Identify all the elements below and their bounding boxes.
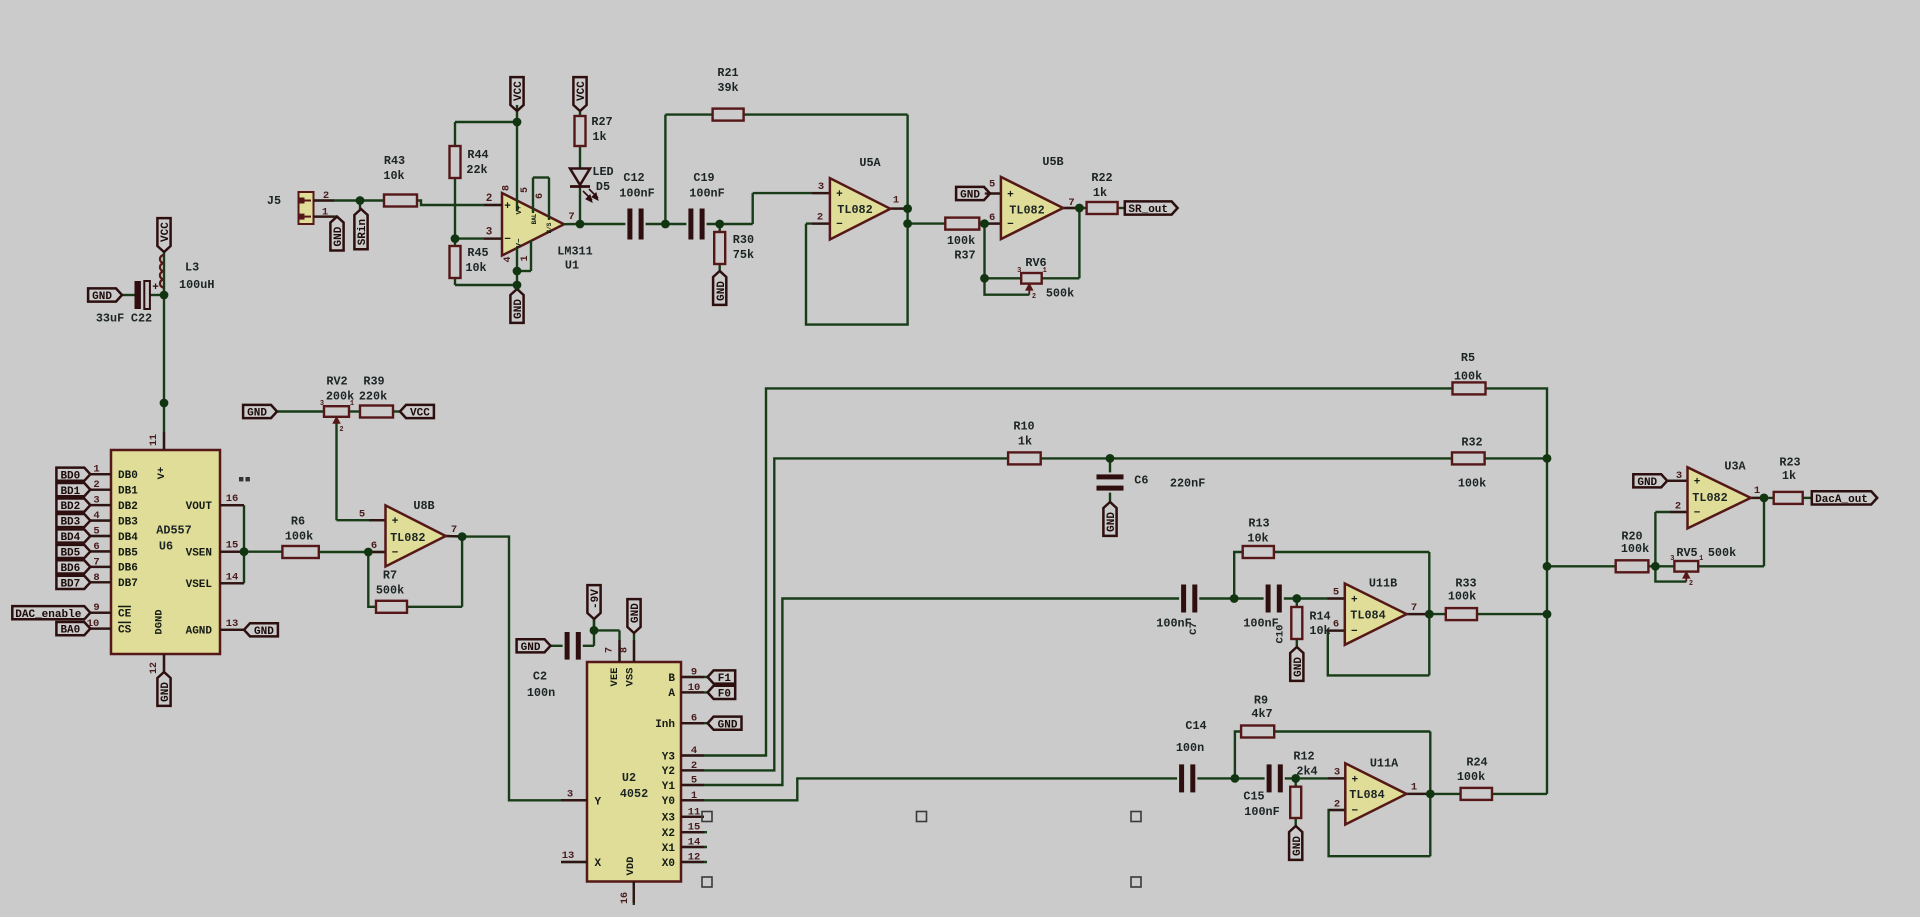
svg-text:R21: R21 [717,66,738,80]
svg-text:14: 14 [226,571,239,583]
svg-text:GND: GND [513,299,525,319]
svg-text:220k: 220k [359,390,387,404]
svg-text:9: 9 [691,667,697,679]
svg-text:7: 7 [451,524,457,536]
svg-text:GND: GND [630,603,642,623]
svg-text:R45: R45 [467,246,488,260]
svg-text:C14: C14 [1185,719,1206,733]
svg-text:BD2: BD2 [60,501,80,513]
svg-text:−: − [1351,806,1358,818]
svg-text:GND: GND [1292,836,1304,856]
svg-text:DB7: DB7 [118,578,138,590]
svg-text:10k: 10k [1247,532,1268,546]
svg-text:3: 3 [567,788,573,800]
svg-text:3: 3 [1670,555,1674,563]
svg-text:R27: R27 [591,115,612,129]
svg-text:100nF: 100nF [619,187,654,201]
svg-text:R43: R43 [384,154,405,168]
svg-text:−: − [1351,626,1358,638]
svg-text:−: − [836,219,843,231]
svg-text:Inh: Inh [655,719,675,731]
svg-text:7: 7 [605,647,616,653]
svg-text:8: 8 [93,572,99,584]
svg-text:+: + [1007,189,1014,201]
svg-text:U2: U2 [622,771,636,785]
svg-text:R33: R33 [1455,577,1476,591]
svg-text:2: 2 [1675,501,1681,513]
svg-text:F0: F0 [718,689,731,701]
svg-text:12: 12 [149,662,160,674]
svg-text:+: + [392,516,399,528]
svg-text:3: 3 [486,227,493,239]
svg-text:VOUT: VOUT [186,501,213,513]
svg-text:Y: Y [595,796,602,808]
svg-text:D5: D5 [596,180,610,194]
svg-text:R12: R12 [1293,750,1314,764]
svg-text:2: 2 [817,212,823,224]
svg-text:7: 7 [93,556,99,568]
svg-text:VSEN: VSEN [186,548,212,560]
svg-text:TL084: TL084 [1349,788,1384,802]
svg-text:4: 4 [503,256,514,262]
svg-text:Y1: Y1 [662,781,676,793]
svg-text:16: 16 [226,493,239,505]
svg-text:1: 1 [1411,782,1417,794]
svg-text:10k: 10k [465,261,486,275]
svg-text:500k: 500k [1046,287,1074,301]
svg-text:+: + [152,282,159,294]
svg-text:VCC: VCC [576,81,588,101]
svg-text:13: 13 [226,618,239,630]
svg-text:GND: GND [716,281,728,301]
svg-text:2k4: 2k4 [1296,765,1317,779]
svg-text:100k: 100k [1448,590,1476,604]
svg-text:TL082: TL082 [837,203,872,217]
svg-text:8: 8 [502,185,513,191]
svg-text:3: 3 [818,181,824,193]
svg-text:GND: GND [1637,477,1657,489]
svg-text:1: 1 [322,207,328,219]
svg-text:+: + [1351,594,1358,606]
svg-text:GND: GND [160,682,172,702]
svg-text:75k: 75k [733,248,754,262]
svg-text:U11A: U11A [1370,757,1399,771]
svg-text:6: 6 [535,193,546,199]
svg-text:U5A: U5A [859,156,881,170]
svg-text:5: 5 [691,775,697,787]
svg-text:100k: 100k [1454,370,1482,384]
svg-text:5: 5 [520,187,531,193]
svg-text:16: 16 [620,892,631,904]
svg-text:V−: V− [516,238,524,248]
svg-text:1k: 1k [592,130,606,144]
svg-text:DB4: DB4 [118,532,138,544]
svg-text:R37: R37 [954,249,975,263]
svg-text:2: 2 [339,426,343,434]
svg-text:C2: C2 [533,670,547,684]
svg-text:9: 9 [93,602,99,614]
svg-text:1: 1 [893,195,899,207]
svg-text:2: 2 [1689,580,1693,588]
svg-text:V+: V+ [516,205,524,215]
svg-text:100nF: 100nF [1156,617,1191,631]
svg-text:7: 7 [568,211,574,223]
svg-text:BAL: BAL [531,213,538,224]
svg-text:C10: C10 [1275,625,1287,644]
svg-text:U5B: U5B [1042,155,1063,169]
svg-text:Y3: Y3 [662,751,676,763]
svg-text:+: + [1694,477,1701,489]
svg-text:1k: 1k [1782,469,1796,483]
svg-text:U6: U6 [159,540,173,554]
svg-text:LM311: LM311 [557,245,592,259]
svg-text:R22: R22 [1091,171,1112,185]
svg-text:2: 2 [1334,799,1340,811]
svg-text:AD557: AD557 [156,524,191,538]
svg-text:F1: F1 [718,673,732,685]
svg-text:GND: GND [1293,657,1305,677]
svg-text:L3: L3 [185,261,199,275]
svg-text:C7: C7 [1188,622,1200,635]
svg-text:11: 11 [688,806,701,818]
svg-text:B: B [668,673,675,685]
svg-text:6: 6 [989,212,995,224]
svg-text:8: 8 [620,647,631,653]
svg-text:1: 1 [1754,485,1760,497]
svg-text:R9: R9 [1254,694,1268,708]
svg-text:DB0: DB0 [118,470,138,482]
svg-text:200k: 200k [326,390,354,404]
svg-text:Y2: Y2 [662,766,675,778]
svg-text:100k: 100k [1457,770,1485,784]
svg-text:DAC_enable: DAC_enable [15,609,81,621]
svg-text:DB5: DB5 [118,547,138,559]
svg-text:100n: 100n [1176,741,1204,755]
svg-text:5: 5 [93,526,99,538]
svg-text:100k: 100k [947,234,975,248]
svg-text:2: 2 [93,479,99,491]
svg-text:11: 11 [149,434,160,446]
svg-text:DGND: DGND [154,609,166,634]
svg-text:VDD: VDD [625,857,637,876]
svg-text:R24: R24 [1466,756,1487,770]
svg-text:RV6: RV6 [1025,256,1046,270]
svg-text:TL082: TL082 [1692,491,1727,505]
svg-text:10: 10 [87,618,100,630]
svg-text:RV5: RV5 [1676,546,1697,560]
svg-text:5: 5 [359,509,365,521]
svg-text:6: 6 [371,540,377,552]
svg-text:4052: 4052 [620,787,648,801]
svg-text:LED: LED [592,165,613,179]
svg-text:6: 6 [93,541,99,553]
svg-text:X3: X3 [662,813,676,825]
svg-text:B/S: B/S [546,222,553,233]
svg-text:100k: 100k [285,530,313,544]
svg-text:1: 1 [691,790,697,802]
svg-text:DacA_out: DacA_out [1815,494,1868,506]
svg-text:R5: R5 [1461,351,1475,365]
svg-text:GND: GND [247,408,267,420]
svg-text:RV2: RV2 [326,375,347,389]
svg-text:Y0: Y0 [662,796,675,808]
svg-text:1k: 1k [1093,186,1107,200]
svg-text:R39: R39 [363,375,384,389]
svg-text:7: 7 [1411,602,1417,614]
svg-text:500k: 500k [1708,546,1736,560]
svg-text:13: 13 [562,850,575,862]
svg-text:X: X [595,858,602,870]
svg-text:4: 4 [691,745,697,757]
svg-text:GND: GND [254,626,274,638]
svg-text:100nF: 100nF [689,187,724,201]
svg-text:R32: R32 [1461,436,1482,450]
svg-text:14: 14 [688,837,701,849]
svg-text:−: − [1007,219,1014,231]
svg-text:10: 10 [688,682,701,694]
svg-text:+: + [836,189,843,201]
svg-text:+: + [504,201,511,213]
svg-text:VCC: VCC [160,222,172,242]
svg-text:BD0: BD0 [60,470,80,482]
svg-text:2: 2 [323,190,329,202]
svg-text:−: − [504,234,511,246]
svg-text:TL082: TL082 [1009,204,1044,218]
svg-text:TL082: TL082 [390,531,425,545]
svg-text:AGND: AGND [186,626,213,638]
svg-text:GND: GND [960,190,980,202]
svg-text:BD1: BD1 [60,486,80,498]
svg-text:2: 2 [691,760,697,772]
svg-text:VEE: VEE [609,668,621,687]
svg-text:220nF: 220nF [1170,477,1205,491]
svg-text:4k7: 4k7 [1251,707,1272,721]
svg-text:DB1: DB1 [118,485,138,497]
svg-text:CS: CS [118,624,132,636]
svg-text:R10: R10 [1013,420,1034,434]
svg-text:3: 3 [1334,767,1340,779]
svg-text:100nF: 100nF [1243,617,1278,631]
svg-text:3: 3 [1017,267,1021,275]
svg-text:C6: C6 [1134,474,1148,488]
svg-text:BD3: BD3 [60,517,80,529]
svg-text:X2: X2 [662,828,675,840]
svg-text:TL084: TL084 [1350,609,1385,623]
svg-text:BD5: BD5 [60,548,80,560]
svg-text:U3A: U3A [1724,460,1746,474]
svg-text:DB2: DB2 [118,501,138,513]
svg-text:CE: CE [118,609,132,621]
svg-text:3: 3 [93,495,99,507]
svg-text:R7: R7 [383,569,397,583]
svg-text:1: 1 [1699,555,1703,563]
svg-text:BD6: BD6 [60,563,80,575]
svg-text:R44: R44 [467,148,488,162]
svg-text:-9V: -9V [590,589,602,609]
svg-text:VCC: VCC [513,81,525,101]
svg-text:5: 5 [1333,587,1339,599]
svg-text:VSS: VSS [625,668,637,687]
svg-text:R6: R6 [291,515,305,529]
svg-text:3: 3 [1676,470,1682,482]
svg-text:GND: GND [1106,512,1118,532]
svg-text:C22: C22 [131,312,152,326]
svg-text:U11B: U11B [1369,577,1397,591]
svg-text:DB6: DB6 [118,563,138,575]
svg-text:R30: R30 [733,233,754,247]
svg-text:VSEL: VSEL [186,579,213,591]
svg-text:A: A [668,688,675,700]
svg-text:2: 2 [486,193,493,205]
svg-text:GND: GND [718,719,738,731]
svg-text:22k: 22k [466,163,487,177]
svg-text:−: − [1694,508,1701,520]
svg-text:39k: 39k [717,81,738,95]
svg-text:BD7: BD7 [60,578,80,590]
svg-text:5: 5 [989,179,995,191]
svg-text:1k: 1k [1018,435,1032,449]
svg-text:10k: 10k [383,169,404,183]
svg-text:BA0: BA0 [60,625,80,637]
svg-text:C15: C15 [1243,790,1264,804]
svg-text:C19: C19 [693,171,714,185]
svg-text:+: + [1351,774,1358,786]
svg-text:100k: 100k [1458,477,1486,491]
svg-text:33uF: 33uF [96,312,124,326]
svg-text:100n: 100n [527,686,555,700]
svg-text:6: 6 [691,713,697,725]
svg-text:X0: X0 [662,858,675,870]
svg-text:15: 15 [226,540,239,552]
svg-text:100uH: 100uH [179,278,214,292]
svg-text:−: − [392,548,399,560]
svg-text:VCC: VCC [410,408,430,420]
svg-text:V+: V+ [156,467,168,480]
svg-text:100nF: 100nF [1244,805,1279,819]
svg-text:U8B: U8B [413,499,434,513]
svg-text:R13: R13 [1248,517,1269,531]
svg-text:U1: U1 [565,259,579,273]
svg-text:12: 12 [688,852,701,864]
svg-text:GND: GND [92,291,112,303]
svg-text:7: 7 [1068,197,1074,209]
svg-text:3: 3 [320,400,324,408]
svg-text:10k: 10k [1309,624,1330,638]
svg-text:SR_out: SR_out [1128,204,1168,216]
svg-text:500k: 500k [376,584,404,598]
svg-text:100k: 100k [1621,542,1649,556]
svg-text:15: 15 [688,822,701,834]
svg-text:1: 1 [520,255,531,261]
svg-text:BD4: BD4 [60,532,80,544]
svg-text:R23: R23 [1779,456,1800,470]
svg-text:J5: J5 [267,194,281,208]
svg-text:GND: GND [333,226,345,246]
svg-text:2: 2 [1032,293,1036,301]
svg-text:C12: C12 [623,171,644,185]
svg-text:DB3: DB3 [118,516,138,528]
svg-text:1: 1 [93,464,99,476]
svg-text:R14: R14 [1309,610,1330,624]
svg-text:6: 6 [1333,619,1339,631]
svg-text:4: 4 [93,510,99,522]
svg-text:SRin: SRin [357,219,369,245]
svg-text:GND: GND [521,642,541,654]
svg-text:X1: X1 [662,843,676,855]
